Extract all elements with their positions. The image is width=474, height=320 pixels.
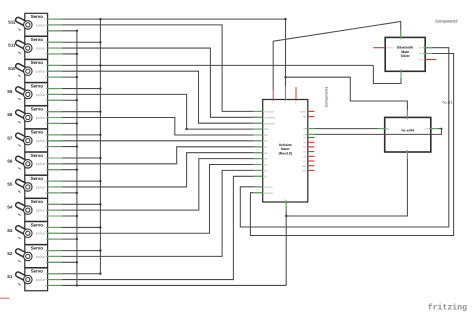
svg-text:hc-sr04: hc-sr04 [402, 129, 415, 133]
svg-text:Servo: Servo [31, 14, 44, 19]
svg-text:Servo: Servo [31, 153, 44, 158]
svg-text:Servo: Servo [31, 269, 44, 274]
svg-text:3V3: 3V3 [302, 170, 307, 173]
svg-text:(Rev3.0): (Rev3.0) [279, 151, 292, 155]
svg-text:VOUT: VOUT [300, 111, 307, 114]
svg-text:Servo: Servo [31, 107, 44, 112]
svg-text:Servo: Servo [31, 37, 44, 42]
svg-text:S3: S3 [7, 228, 13, 233]
svg-text:Servo: Servo [31, 130, 44, 135]
svg-text:Silver: Silver [401, 54, 411, 58]
svg-text:CTS-I: CTS-I [418, 59, 424, 62]
svg-text:RX-I: RX-I [419, 53, 424, 56]
svg-text:pulse: pulse [36, 278, 45, 282]
svg-text:pulse: pulse [36, 162, 45, 166]
svg-text:pulse: pulse [36, 209, 45, 213]
svg-text:TX-O: TX-O [419, 47, 425, 50]
svg-text:pulse: pulse [36, 116, 45, 120]
svg-text:Component2: Component2 [435, 18, 457, 23]
svg-text:S6: S6 [7, 158, 13, 163]
svg-text:G: G [294, 101, 297, 103]
svg-text:S2: S2 [7, 251, 13, 256]
svg-text:VIN: VIN [302, 116, 306, 119]
svg-text:pulse: pulse [36, 23, 45, 27]
svg-text:pulse: pulse [36, 46, 45, 50]
svg-text:Servo: Servo [31, 176, 44, 181]
svg-text:ARF: ARF [301, 165, 306, 168]
svg-text:Servo: Servo [31, 222, 44, 227]
svg-text:hc-sr1: hc-sr1 [443, 100, 453, 104]
svg-text:pulse: pulse [36, 255, 45, 259]
svg-text:S5: S5 [7, 182, 13, 187]
svg-text:Servo: Servo [31, 199, 44, 204]
svg-text:S11: S11 [8, 43, 16, 48]
svg-text:D10: D10 [264, 128, 269, 131]
svg-text:S4: S4 [7, 205, 13, 210]
svg-text:G: G [284, 199, 287, 201]
svg-text:D0/RX0: D0/RX0 [264, 192, 273, 195]
svg-text:Servo: Servo [31, 83, 44, 88]
svg-text:pulse: pulse [36, 232, 45, 236]
svg-text:pulse: pulse [36, 93, 45, 97]
svg-text:D11/MOSI: D11/MOSI [264, 122, 275, 125]
svg-text:D1/TX0: D1/TX0 [264, 186, 273, 189]
svg-text:S7: S7 [7, 135, 13, 140]
svg-text:D12/MISO: D12/MISO [264, 116, 275, 119]
svg-text:pulse: pulse [36, 139, 45, 143]
svg-text:pulse: pulse [36, 70, 45, 74]
svg-text:Component1: Component1 [325, 87, 329, 108]
svg-text:S1: S1 [7, 274, 13, 279]
svg-text:pulse: pulse [36, 185, 45, 189]
svg-text:Servo: Servo [31, 60, 44, 65]
svg-text:S8: S8 [7, 112, 13, 117]
svg-text:S9: S9 [7, 89, 13, 94]
svg-text:D13/SCK: D13/SCK [264, 111, 274, 114]
svg-text:fritzing: fritzing [428, 303, 467, 313]
svg-text:Servo: Servo [31, 245, 44, 250]
svg-text:echo: echo [425, 128, 431, 131]
svg-text:RTS-O: RTS-O [387, 47, 394, 50]
